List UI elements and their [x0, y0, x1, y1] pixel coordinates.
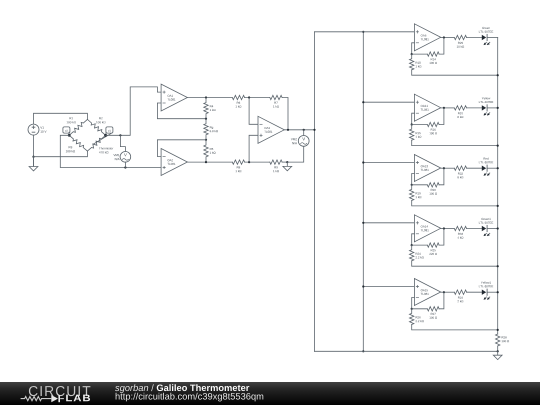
wire V1 bottom to ground rail — [33, 135, 35, 166]
wire OA14 output — [441, 228, 455, 230]
junction OA13 output — [443, 167, 445, 169]
label LED Red — [479, 158, 493, 164]
wire R8 to node — [245, 161, 270, 163]
op-amp OA3 TL081 — [258, 116, 284, 143]
wire OA2 output — [187, 161, 232, 163]
junction OA14 output — [443, 227, 445, 229]
junction OA3 - node — [248, 96, 250, 98]
label R34 — [458, 297, 464, 303]
wire right rail (LED cathode bus) — [497, 38, 499, 334]
resistor R7 1 k (feedback) — [270, 95, 282, 99]
op-amp OA11 TL081 — [414, 94, 440, 121]
resistor R34 2 kohm (LED series) — [454, 290, 466, 294]
wire v1 to OA1 + input — [106, 87, 162, 135]
wire threshold stage 1 to right rail — [412, 70, 498, 75]
wire VM2 bottom to ground node — [287, 146, 303, 162]
junction node v2 — [68, 134, 71, 137]
label R8 — [236, 166, 242, 172]
wire bottom rail — [315, 350, 498, 352]
label R3 — [66, 146, 75, 152]
wire threshold stage 5 to right rail — [412, 325, 498, 330]
label R9 — [273, 166, 279, 172]
wire R28 to ground — [497, 346, 499, 351]
wire OA13 output — [441, 167, 455, 169]
LED D2 Yellow LTL-307EE — [467, 105, 498, 116]
ground (difference amp) — [283, 162, 292, 171]
resistor R33 4 kohm (LED series) — [454, 226, 466, 230]
op-amp OA1 TL081 — [161, 84, 187, 111]
resistor R6 1 k (top input) — [232, 95, 244, 99]
label VM1 — [113, 154, 119, 160]
op-amp OA15 TL081 — [414, 279, 440, 306]
wire OA11 - input — [412, 113, 415, 124]
wire OA3 output to rail — [284, 129, 314, 131]
label R2 — [96, 117, 105, 123]
wire R6 to node — [245, 97, 270, 99]
CircuitLab logo — [15, 381, 115, 409]
label R10 — [416, 62, 422, 68]
resistor R9 1 k (to ground) — [270, 160, 282, 164]
wire node to OA3 + input — [249, 135, 258, 162]
label R6 — [236, 102, 242, 108]
label R15 — [416, 132, 422, 138]
junction Rg/R5 node — [205, 139, 207, 141]
wire R9 to ground node — [282, 161, 287, 163]
resistor R20 (feedback) — [427, 183, 439, 187]
label R20 — [430, 189, 437, 195]
label R29 — [457, 42, 464, 48]
junction right rail stage 3 — [497, 205, 499, 207]
resistor R28 100 (rail to ground) — [496, 334, 500, 346]
wire OA15 - input — [412, 298, 415, 309]
net flag v1 — [106, 127, 113, 135]
resistor R14 (feedback) — [427, 52, 439, 56]
wire v2 to OA2 + input — [60, 135, 161, 167]
label R26 — [416, 316, 424, 322]
resistor R4 1 k (vertical) — [204, 98, 208, 119]
wire middle rail to OA13 + input — [363, 162, 414, 164]
junction OA3 + node — [248, 161, 250, 163]
wire V1 top to bridge top node — [34, 113, 88, 124]
junction right rail stage 4 — [497, 265, 499, 267]
junction OA6 output — [443, 36, 445, 38]
label R24 — [416, 253, 424, 259]
op-amp OA6 TL081 — [414, 24, 440, 51]
wire OA1 output — [187, 97, 232, 99]
label R7 — [273, 102, 279, 108]
junction VM2 top — [303, 129, 305, 131]
junction - node stage 3 — [411, 184, 413, 186]
junction LED 3 / right rail — [497, 167, 499, 169]
wire VM1 bottom lead — [124, 162, 126, 167]
resistor R27 (feedback) — [427, 307, 439, 311]
junction middle rail bottom — [362, 350, 364, 352]
label R19 — [416, 192, 422, 198]
wire left rail (OA3 output bus) — [314, 32, 316, 352]
resistor R32 6 kohm (LED series) — [454, 166, 466, 170]
voltmeter VM2 — [298, 136, 309, 147]
label R31 — [458, 112, 464, 118]
wire OA1 feedback — [157, 103, 206, 119]
junction right rail stage 5 — [497, 329, 499, 331]
junction OA1 out / R4 — [205, 96, 207, 98]
label LED Yellow — [479, 97, 493, 103]
junction v1 / VM1 top — [119, 134, 121, 136]
label Rg — [210, 126, 218, 132]
resistor R26 (threshold) — [410, 309, 414, 325]
junction LED 4 / right rail — [497, 227, 499, 229]
junction V1- / bridge bottom — [32, 156, 34, 158]
wire middle rail to OA11 + input — [363, 101, 414, 103]
label R32 — [458, 173, 464, 179]
resistor R25 (feedback) — [427, 243, 439, 247]
label R5 — [210, 148, 216, 154]
wire feedback stage 5 — [412, 292, 444, 309]
label LED Yellow1 — [479, 282, 493, 288]
junction middle rail top — [362, 31, 364, 33]
junction OA11 output — [443, 107, 445, 109]
wire OA6 - input — [412, 43, 415, 54]
wire VM2 top lead — [303, 130, 305, 136]
voltmeter VM1 — [120, 152, 131, 163]
junction OA2 out / R5 — [205, 161, 207, 163]
resistor R2 100 k (bridge top-right arm) — [87, 119, 105, 135]
label R27 — [430, 313, 437, 319]
junction v2 wire / VM1 bottom — [124, 166, 126, 168]
wire feedback stage 4 — [412, 229, 444, 246]
resistor R24 (threshold) — [410, 245, 414, 261]
resistor R31 8 kohm (LED series) — [454, 106, 466, 110]
resistor R10 (threshold) — [410, 54, 414, 70]
wire OA14 - input — [412, 234, 415, 245]
resistor R29 10 kohm (LED series) — [454, 35, 466, 39]
resistor R19 (threshold) — [410, 185, 414, 201]
net flag v2 — [63, 127, 70, 135]
label R28 — [502, 336, 509, 342]
label R33 — [457, 233, 463, 239]
label R14 — [430, 58, 437, 64]
label R1 — [67, 117, 76, 123]
junction middle rail stage 4 — [362, 222, 364, 224]
wire VM1 top lead — [120, 135, 125, 151]
resistor R15 (threshold) — [410, 125, 414, 141]
wire middle rail to OA15 + input — [363, 286, 414, 288]
op-amp OA13 TL081 — [414, 155, 440, 182]
junction bottom rail / R28 — [497, 350, 499, 352]
LED D3 Red LTL-307EE — [467, 165, 498, 176]
footer title text — [115, 383, 415, 411]
wire threshold stage 3 to right rail — [412, 201, 498, 206]
label LED Green — [479, 27, 493, 33]
resistor R1 100 k (bridge top-left arm) — [69, 119, 87, 135]
wire node to OA3 - input — [249, 98, 258, 125]
label R16 — [430, 129, 437, 135]
resistor R3 100 k (bridge bottom-left arm) — [69, 135, 87, 151]
junction right rail stage 2 — [497, 145, 499, 147]
resistor R8 1 k (bottom input) — [232, 160, 244, 164]
resistor R16 (feedback) — [427, 122, 439, 126]
label Thermistor — [99, 147, 113, 153]
thermistor RT 470 k (bridge bottom-right arm) — [87, 133, 111, 151]
wire + input bus to OA6 — [315, 31, 415, 33]
wire OA13 - input — [412, 174, 415, 185]
voltage source V1 10 V — [28, 124, 46, 135]
junction LED 5 / right rail — [497, 291, 499, 293]
ground (R28) — [493, 351, 502, 359]
wire middle rail to OA14 + input — [363, 222, 414, 224]
wire OA2 feedback — [157, 140, 206, 157]
junction - node stage 1 — [411, 53, 413, 55]
junction node v1 — [104, 134, 107, 137]
label R4 — [210, 105, 216, 111]
label R25 — [429, 249, 437, 255]
op-amp OA2 TL081 — [161, 149, 187, 176]
junction OA15 output — [443, 291, 445, 293]
LED D5 Yellow1 LTL-307EE — [467, 289, 498, 300]
junction middle rail stage 5 — [362, 285, 364, 287]
junction middle rail stage 3 — [362, 161, 364, 163]
junction - node stage 5 — [411, 308, 413, 310]
junction OA3 output / left rail — [313, 129, 315, 131]
junction OA3 out / feedback — [287, 129, 289, 131]
wire R7 to OA3 output — [282, 98, 288, 130]
junction - node stage 4 — [411, 244, 413, 246]
junction right rail stage 1 — [497, 74, 499, 76]
wire feedback stage 2 — [412, 108, 444, 125]
wire threshold stage 2 to right rail — [412, 140, 498, 145]
junction middle rail stage 2 — [362, 101, 364, 103]
wire OA15 output — [441, 291, 455, 293]
label LED Green1 — [479, 218, 493, 224]
junction ground node — [286, 161, 288, 163]
LED D1 Green LTL-307EE — [467, 34, 498, 45]
wire OA11 output — [441, 107, 455, 109]
ground (V1) — [29, 157, 38, 171]
resistor Rg 6.8 k (vertical) — [204, 119, 208, 140]
op-amp OA14 TL081 — [414, 215, 440, 242]
resistor R5 1 k (vertical) — [204, 140, 208, 162]
junction LED 2 / right rail — [497, 107, 499, 109]
wire bridge bottom node to V1- — [34, 151, 88, 157]
wire feedback stage 3 — [412, 168, 444, 185]
LED D4 Green1 LTL-307EE — [467, 225, 498, 236]
junction - node stage 2 — [411, 123, 413, 125]
label VM2 — [291, 138, 297, 144]
junction R4/Rg node — [205, 118, 207, 120]
wire feedback stage 1 — [412, 38, 444, 55]
wire threshold stage 4 to right rail — [412, 261, 498, 266]
wire OA6 output — [441, 37, 455, 39]
wire middle rail (comparator + bus) — [362, 32, 364, 352]
